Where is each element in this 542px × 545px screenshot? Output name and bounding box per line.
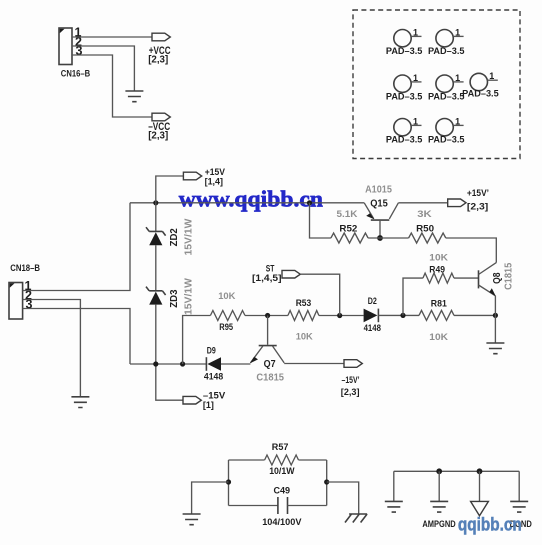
- svg-text:PAD–3.5: PAD–3.5: [386, 46, 423, 56]
- resistor R53 10K: [288, 298, 319, 343]
- connector CN16-B: [59, 28, 90, 79]
- node junction AMPGND: [436, 468, 442, 474]
- svg-text:[1,4,5]: [1,4,5]: [252, 273, 282, 284]
- svg-text:R57: R57: [272, 442, 289, 453]
- wire CN16-B pin1 to +VCC flag: [72, 36, 152, 38]
- svg-text:PAD–3.5: PAD–3.5: [386, 135, 423, 145]
- node junction right branch: [324, 479, 329, 484]
- wire CN18-B pin2 to ground: [23, 300, 81, 397]
- signal ground triangle: [471, 501, 489, 515]
- zener diode ZD2 15V/1W: [146, 203, 194, 256]
- svg-text:1: 1: [455, 116, 460, 126]
- transistor Q7 C1815: [250, 316, 284, 384]
- resistor R95 10K: [210, 291, 245, 333]
- wire R57 C49 right branch: [326, 460, 328, 506]
- svg-text:1: 1: [413, 27, 418, 37]
- svg-text:4148: 4148: [204, 371, 223, 382]
- svg-text:AMPGND: AMPGND: [422, 519, 455, 530]
- svg-text:Q15: Q15: [370, 197, 388, 209]
- svg-text:10K: 10K: [429, 332, 448, 343]
- svg-text:C1815: C1815: [256, 372, 284, 383]
- ground DGND: [510, 501, 532, 529]
- pad P3 PAD-3.5: [386, 73, 423, 102]
- pad P4 PAD-3.5: [428, 73, 465, 102]
- wire R52 to R50: [368, 237, 409, 239]
- node junction Q15 base R52 R50: [377, 235, 383, 241]
- wire D9 to Q7 emitter: [221, 363, 250, 365]
- wire R95 drop: [183, 316, 211, 365]
- svg-text:10/1W: 10/1W: [269, 466, 294, 477]
- pad P6 PAD-3.5: [386, 116, 423, 144]
- wire left stub to ground: [192, 482, 229, 514]
- svg-text:1: 1: [455, 27, 460, 37]
- node junction D2 R49 R81: [400, 313, 405, 318]
- wire lower rail y364: [130, 363, 206, 365]
- wire drop to DGND ground: [518, 471, 520, 501]
- flag +VCC: [148, 33, 170, 65]
- svg-text:1: 1: [455, 73, 460, 83]
- svg-text:3K: 3K: [417, 209, 432, 220]
- node junction R95 drop and lower rail: [180, 361, 185, 366]
- chassis ground (R57 right): [345, 514, 367, 523]
- node junction signal ground: [477, 468, 483, 474]
- transistor Q15 A1015: [364, 185, 398, 238]
- resistor R49 10K: [423, 253, 454, 284]
- svg-text:C49: C49: [274, 485, 291, 496]
- wire ZD2 to ZD3: [155, 245, 157, 291]
- wire D2 to R81: [378, 314, 419, 316]
- pad field dashed box: [353, 10, 520, 159]
- svg-text:1: 1: [489, 71, 494, 81]
- svg-text:104/100V: 104/100V: [262, 517, 302, 528]
- svg-text:10K: 10K: [296, 332, 313, 343]
- flag +15Vp: [448, 188, 489, 212]
- wire stub to +15V flag: [156, 176, 184, 203]
- node junction ST R53 D2: [337, 313, 342, 318]
- svg-text:PAD–3.5: PAD–3.5: [386, 92, 423, 102]
- wire R57 C49 left branch: [228, 460, 230, 506]
- svg-text:+15V’: +15V’: [467, 188, 489, 199]
- flag -VCC: [148, 113, 170, 141]
- flag +15V: [183, 167, 225, 186]
- wire rail down to R52: [310, 203, 331, 238]
- wire R50 to Q8 collector: [446, 238, 497, 263]
- flag -15V: [183, 391, 226, 411]
- svg-text:1: 1: [413, 116, 418, 126]
- ground (R57 left): [183, 514, 201, 525]
- diode D9 4148: [204, 346, 223, 383]
- svg-text:[2,3]: [2,3]: [148, 131, 168, 142]
- resistor R57 10/1W: [229, 442, 327, 477]
- svg-text:A1015: A1015: [365, 185, 392, 196]
- connector CN18-B: [9, 263, 40, 319]
- svg-text:www.qqibb.cn: www.qqibb.cn: [179, 187, 323, 213]
- wire drop to AMPGND ground: [438, 471, 440, 501]
- svg-text:[1]: [1]: [203, 400, 214, 411]
- ground AMPGND: [422, 501, 455, 529]
- svg-text:15V/1W: 15V/1W: [182, 219, 194, 256]
- svg-text:ZD2: ZD2: [168, 228, 180, 246]
- svg-text:10K: 10K: [429, 253, 448, 264]
- svg-text:PAD–3.5: PAD–3.5: [428, 135, 465, 145]
- svg-text:ZD3: ZD3: [168, 289, 180, 307]
- ground (CN18-B pin2): [71, 397, 89, 408]
- svg-text:15V/1W: 15V/1W: [182, 278, 194, 315]
- wire ground tie rail: [394, 470, 519, 472]
- svg-text:D9: D9: [207, 346, 216, 357]
- wire node up to R49: [403, 278, 423, 315]
- flag ST: [252, 264, 300, 285]
- svg-text:R95: R95: [219, 322, 233, 333]
- zener diode ZD3 15V/1W: [146, 278, 194, 315]
- svg-text:R50: R50: [416, 223, 434, 234]
- wire Q15 collector to +15Vp flag: [398, 202, 447, 204]
- node junction Q7 base: [265, 313, 270, 318]
- wire CN18-B pin3 to lower rail: [23, 309, 130, 365]
- svg-text:Q8: Q8: [492, 272, 503, 284]
- node junction Q8 emitter R81: [493, 313, 498, 318]
- node junction left branch: [226, 479, 231, 484]
- node junction ZD bus and lower rail: [153, 361, 158, 366]
- svg-text:[2,3]: [2,3]: [341, 387, 360, 397]
- svg-text:PAD–3.5: PAD–3.5: [428, 46, 465, 56]
- pad P1 PAD-3.5: [386, 27, 423, 56]
- wire R95 to Q7 base node: [245, 315, 288, 317]
- node junction rail and ZD bus: [153, 200, 158, 205]
- resistor R52 5.1K: [331, 209, 368, 243]
- node junction rail R52 drop: [307, 200, 312, 205]
- pad P2 PAD-3.5: [428, 27, 465, 56]
- svg-text:1: 1: [413, 73, 418, 83]
- wire Q8 emitter down to ground: [494, 296, 496, 343]
- ground (left of AMPGND): [385, 501, 403, 512]
- svg-text:Q7: Q7: [264, 359, 276, 370]
- resistor R50 3K: [409, 209, 446, 243]
- svg-text:R49: R49: [429, 264, 445, 275]
- wire R49 to Q8 base: [454, 277, 478, 279]
- pad P5 PAD-3.5: [462, 71, 499, 98]
- svg-text:qqibb.cn: qqibb.cn: [458, 515, 522, 535]
- wire CN16-B pin3 to -VCC flag: [72, 55, 152, 117]
- svg-text:CN18–B: CN18–B: [10, 263, 40, 274]
- svg-text:[2,3]: [2,3]: [148, 55, 168, 66]
- wire R81 to Q8 emitter node: [454, 314, 495, 316]
- svg-text:R53: R53: [296, 298, 312, 309]
- wire ST flag to node: [300, 274, 339, 315]
- svg-text:PAD–3.5: PAD–3.5: [428, 92, 465, 102]
- svg-text:[1,4]: [1,4]: [205, 176, 223, 186]
- wire ZD3 to lower rail and -15V stub: [156, 305, 183, 401]
- ground (Q8 emitter): [486, 343, 504, 354]
- svg-text:PAD–3.5: PAD–3.5: [462, 88, 499, 98]
- wire drop to left ground: [393, 471, 395, 501]
- svg-text:D2: D2: [368, 296, 377, 307]
- wire drop to signal ground triangle: [479, 471, 481, 501]
- resistor R81 10K: [419, 299, 454, 343]
- transistor Q8 C1815: [479, 262, 515, 296]
- wire right stub to chassis ground: [327, 482, 359, 514]
- wire CN16-B pin2 to ground: [72, 46, 134, 91]
- svg-text:[2,3]: [2,3]: [467, 201, 488, 212]
- ground (CN16-B pin2): [125, 91, 143, 102]
- svg-text:R81: R81: [431, 299, 448, 310]
- svg-text:–15V’: –15V’: [342, 375, 360, 385]
- svg-text:5.1K: 5.1K: [337, 209, 358, 220]
- wire Q7 collector to -15Vp flag: [284, 363, 344, 365]
- diode D2 4148: [364, 296, 381, 334]
- flag -15Vp: [341, 360, 363, 398]
- pad P7 PAD-3.5: [428, 116, 465, 144]
- svg-text:R52: R52: [339, 223, 357, 234]
- svg-text:10K: 10K: [218, 291, 235, 302]
- wire +15V rail: [130, 202, 364, 204]
- wire CN18-B pin1 to +15V rail: [23, 203, 130, 291]
- capacitor C49 104/100V: [229, 485, 327, 527]
- svg-text:4148: 4148: [364, 323, 381, 334]
- svg-text:CN16–B: CN16–B: [61, 68, 90, 79]
- wire R53 to D2: [319, 315, 364, 317]
- svg-text:C1815: C1815: [503, 262, 514, 290]
